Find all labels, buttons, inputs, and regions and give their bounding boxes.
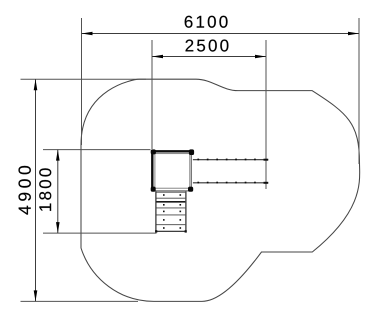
slide rail ticks top [197,159,255,161]
dimension line 4900 [35,79,37,301]
platform left rail (thick) [151,151,153,190]
extension line left of 6100 (vertical x=81.5) [81,18,83,145]
dimension text 2500 [186,40,229,52]
ladder rung line 3 (thick) [157,201,186,203]
dimension line 2500 [152,56,266,58]
platform white backing [151,149,195,192]
platform post top-right [189,149,194,155]
extension line top of 4900 (horizontal y=79.2) [21,78,147,80]
ladder bottom line [157,230,186,232]
slide bottom rail [193,182,268,184]
dimension line 1800 [57,150,59,234]
platform bottom edge (thin) [153,190,192,192]
slide bottom rail end cap [264,182,269,184]
dimension text 6100 [185,16,228,28]
extension line bottom of 1800 (horizontal y=233.1) [43,232,157,234]
dimension line 6100 [82,33,360,35]
ladder foot left [155,230,157,232]
platform inner deck [155,154,190,189]
ladder rung line 6 [157,224,186,226]
platform top rail (thick) [152,150,192,152]
ladder screws left column [163,194,165,229]
dimension text 1800 (rotated) [39,168,51,210]
extension line bottom of 4900 (horizontal y=301.4) [21,300,139,302]
extension line top of 1800 (horizontal y=149.6) [43,149,152,151]
ladder screws right column [180,194,182,229]
safety area outline [81,79,360,301]
platform right edge (thin) [190,152,192,190]
extension line left of 2500 (vertical x=152) [151,40,153,150]
platform post bottom-right [188,187,193,192]
slide rail ticks bottom [197,182,255,184]
dimension text 4900 (rotated) [18,166,30,215]
ladder left rail [155,191,157,232]
ladder foot right [185,230,187,232]
ladder rung line 5 [157,214,186,216]
platform post bottom-left [151,187,156,192]
extension line right of 6100 (vertical x=359) [358,18,360,164]
ladder rung line 1 [157,191,186,193]
ladder right rail [185,191,187,232]
ladder rung line 2 [157,197,186,199]
platform post top-left [151,149,156,154]
slide top rail [193,159,268,161]
extension line right of 2500 (vertical x=266) [265,40,267,189]
ladder rung line 4 [157,207,186,209]
slide top rail end cap [264,159,269,161]
